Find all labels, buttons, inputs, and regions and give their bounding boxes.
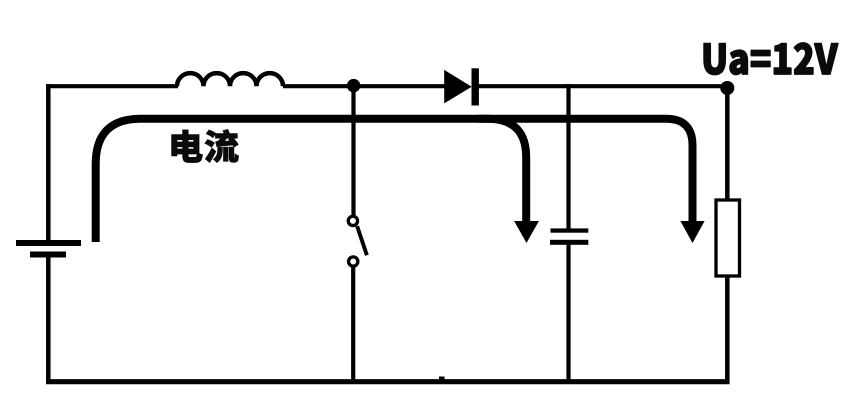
battery B1 long plate (+) <box>16 240 81 246</box>
wire: left vertical (battery bottom lead) <box>46 256 51 384</box>
wire: bottom rail <box>46 379 730 384</box>
wire: load upper lead <box>725 86 730 202</box>
arrowhead: capacitor branch <box>514 221 539 243</box>
wire: capacitor upper lead <box>566 84 570 230</box>
wire: top rail left segment <box>46 84 178 88</box>
wire: switch upper lead <box>351 86 355 216</box>
capacitor C1 bottom plate <box>550 240 588 245</box>
switch S1 blade (open) <box>357 226 367 255</box>
wire: top rail, diode to output node <box>478 84 727 88</box>
artifact nub on bottom rail <box>439 377 445 381</box>
inductor L1 <box>177 73 283 86</box>
diode D1 triangle <box>444 70 472 104</box>
label: 流 (current text, hand-embedded glyph outline) <box>205 129 239 162</box>
label: 电 (current text, hand-embedded glyph outline) <box>172 130 203 163</box>
switch S1 upper contact <box>348 216 357 225</box>
wire: top rail, inductor to diode <box>283 84 445 88</box>
current flow path: middle branch to capacitor <box>478 119 526 224</box>
capacitor C1 top plate <box>551 228 589 232</box>
label: Ua=12V <box>704 43 838 75</box>
resistor R1 (load) body <box>716 200 740 276</box>
wire: switch lower lead <box>351 267 355 384</box>
diode D1 cathode bar <box>472 68 479 105</box>
node B (output node dot) <box>720 81 734 95</box>
wire: capacitor lower lead <box>566 244 570 384</box>
wire: left vertical (battery top lead) <box>46 84 51 241</box>
current flow path: main thick trace from battery to right branch <box>96 119 693 242</box>
battery B1 short plate (-) <box>30 252 66 258</box>
arrowhead: load branch <box>680 221 704 243</box>
node A (switch/diode junction dot) <box>347 79 360 92</box>
switch S1 lower contact <box>349 257 358 266</box>
wire: load lower lead <box>725 274 730 384</box>
